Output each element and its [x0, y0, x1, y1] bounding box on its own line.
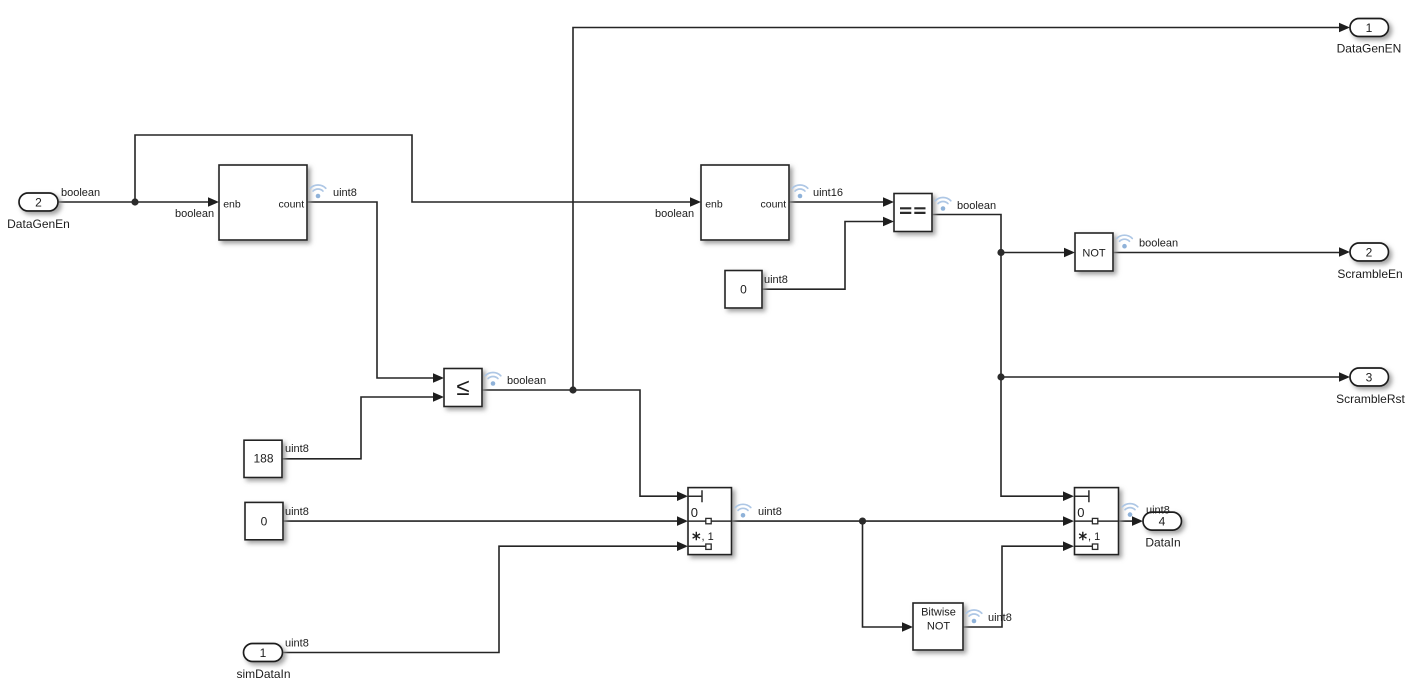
- svg-text:NOT: NOT: [927, 621, 951, 633]
- svg-text:DataIn: DataIn: [1145, 536, 1180, 550]
- svg-text:188: 188: [253, 451, 273, 465]
- svg-text:1: 1: [260, 646, 267, 660]
- svg-text:uint8: uint8: [285, 638, 309, 650]
- svg-text:uint8: uint8: [988, 612, 1012, 624]
- svg-text:4: 4: [1159, 514, 1166, 528]
- svg-text:DataGenEN: DataGenEN: [1337, 42, 1402, 56]
- svg-text:count: count: [761, 198, 787, 210]
- svg-text:ScrambleEn: ScrambleEn: [1337, 267, 1402, 281]
- svg-text:Bitwise: Bitwise: [921, 606, 956, 618]
- svg-text:uint8: uint8: [764, 274, 788, 286]
- svg-text:2: 2: [1366, 245, 1373, 259]
- svg-text:boolean: boolean: [957, 200, 996, 212]
- svg-text:NOT: NOT: [1082, 247, 1106, 259]
- svg-text:≤: ≤: [456, 374, 469, 401]
- svg-text:uint16: uint16: [813, 187, 843, 199]
- svg-text:0: 0: [1077, 505, 1084, 520]
- svg-text:uint8: uint8: [758, 506, 782, 518]
- svg-text:, 1: , 1: [1088, 531, 1100, 543]
- svg-text:1: 1: [1366, 21, 1373, 35]
- svg-text:enb: enb: [223, 198, 241, 210]
- svg-text:simDataIn: simDataIn: [236, 667, 290, 681]
- svg-text:boolean: boolean: [655, 208, 694, 220]
- svg-text:0: 0: [261, 514, 268, 528]
- svg-text:0: 0: [691, 505, 698, 520]
- svg-text:3: 3: [1366, 370, 1373, 384]
- svg-text:, 1: , 1: [702, 531, 714, 543]
- svg-text:ScrambleRst: ScrambleRst: [1336, 392, 1405, 406]
- svg-text:2: 2: [35, 195, 42, 209]
- svg-text:boolean: boolean: [1139, 238, 1178, 250]
- svg-text:boolean: boolean: [175, 208, 214, 220]
- svg-text:count: count: [279, 198, 305, 210]
- svg-text:uint8: uint8: [285, 443, 309, 455]
- svg-text:boolean: boolean: [507, 375, 546, 387]
- svg-text:uint8: uint8: [333, 187, 357, 199]
- svg-text:boolean: boolean: [61, 187, 100, 199]
- svg-text:uint8: uint8: [285, 506, 309, 518]
- svg-text:DataGenEn: DataGenEn: [7, 217, 70, 231]
- svg-text:enb: enb: [705, 198, 723, 210]
- svg-text:0: 0: [740, 282, 747, 296]
